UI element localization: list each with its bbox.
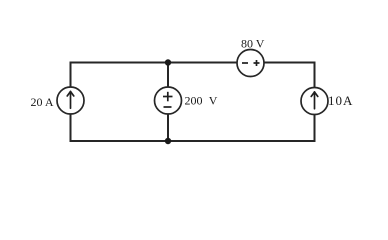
- svg-text:20 A: 20 A: [30, 95, 53, 109]
- svg-text:200 V: 200 V: [185, 94, 218, 108]
- svg-text:10A: 10A: [328, 93, 353, 108]
- svg-text:80 V: 80 V: [241, 37, 265, 51]
